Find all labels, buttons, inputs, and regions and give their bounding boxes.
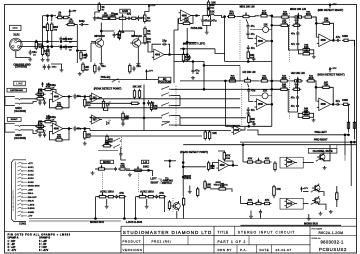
ground gnd-aux1 — [105, 205, 109, 209]
wire mic in branch — [91, 42, 95, 43]
wire mid wiper down — [246, 19, 248, 23]
junction j-hir3 — [271, 80, 273, 82]
wire f107 — [162, 107, 180, 109]
junction j-aux1a — [95, 218, 97, 220]
connector CON1 body — [12, 160, 27, 222]
svg-text:22u: 22u — [136, 65, 141, 68]
wire q105 link — [319, 192, 324, 196]
svg-text:4 : -17V: 4 : -17V — [8, 249, 17, 252]
wire keep chain2 — [226, 189, 233, 192]
wire r171 top — [197, 188, 199, 190]
pot MONO-A — [97, 165, 107, 170]
wire mic shield — [16, 51, 30, 58]
svg-text:RIGHT: RIGHT — [11, 119, 18, 121]
capacitor C132 — [147, 100, 155, 107]
resistor R108 — [98, 2, 105, 13]
junction j-mic4 — [60, 41, 62, 43]
ground gnd-line2 — [78, 72, 82, 76]
wiper node arrow — [169, 161, 171, 167]
wire mid chain c — [269, 15, 272, 17]
capacitor C136 elec rail — [251, 121, 255, 127]
pinouts box top — [5, 230, 122, 232]
svg-text:10K: 10K — [212, 132, 217, 135]
capacitor C114 elec — [208, 18, 217, 24]
op-amp U2B — [317, 34, 333, 47]
junction j-u6bo — [332, 104, 334, 106]
resistor R160 — [342, 103, 350, 105]
resistor R176 — [168, 200, 170, 211]
connector JK2 ring — [15, 130, 21, 131]
CON1 pin 9 INS-L — [18, 192, 35, 195]
right block divider — [310, 235, 357, 237]
capacitor C121 — [335, 35, 341, 42]
capacitor C115 47n — [246, 23, 249, 29]
resistor R175 — [157, 196, 166, 198]
svg-text:MONO BUS: MONO BUS — [90, 221, 104, 224]
capacitor C120 47n — [296, 41, 299, 47]
CON1 pin 8 +48V — [18, 188, 34, 191]
wire u3 out2 — [77, 96, 90, 98]
title block grid — [121, 226, 357, 253]
pot trim MID — [263, 27, 269, 33]
pot MONO VR3 — [133, 166, 144, 171]
wire q2 collector — [133, 31, 135, 37]
wire r181 down — [273, 196, 275, 199]
resistor R146 — [102, 99, 104, 110]
ground gnd-hir — [312, 118, 316, 122]
vertical wire x348 high out — [348, 104, 350, 132]
wire hir chain mid — [290, 80, 293, 82]
resistor R191 drop — [347, 121, 349, 129]
ground gnd-q1 — [99, 62, 103, 66]
wire c113 top — [203, 16, 211, 19]
title block middle sub-grid — [235, 226, 272, 253]
vertical wire x345 — [344, 135, 346, 155]
supply +17V peak — [146, 69, 154, 74]
connector JK2 tip — [15, 126, 21, 127]
svg-text:26-02-97: 26-02-97 — [276, 248, 292, 252]
supply +17V midr — [329, 3, 337, 8]
wire u1a fb right — [168, 44, 170, 54]
wire hi trim left — [250, 95, 262, 97]
wire bus y117 — [90, 117, 162, 119]
resistor R178 — [246, 161, 255, 163]
wire hi chain b — [253, 80, 260, 82]
svg-text:POSITION: POSITION — [159, 80, 171, 83]
connector XLR1 inner — [11, 39, 21, 49]
wire c144 down — [260, 215, 262, 219]
capacitor C119 47n — [296, 31, 299, 37]
resistor R166 — [102, 140, 113, 147]
svg-text:GAIN: GAIN — [122, 10, 128, 13]
svg-text:(PEAK DETECT POINT): (PEAK DETECT POINT) — [180, 151, 208, 154]
wire aux2 feed — [136, 196, 140, 198]
wire c107 r107 top — [77, 50, 86, 52]
switch SW4 — [316, 158, 325, 162]
svg-text:LINE: LINE — [16, 82, 23, 86]
svg-text:LEFT/MONO: LEFT/MONO — [10, 90, 23, 92]
transistor Q102 — [130, 34, 142, 49]
wire sw out3 — [171, 115, 180, 117]
pot PRE VR7 — [254, 158, 263, 163]
wire u8 fb — [224, 159, 233, 165]
capacitor C144 — [259, 209, 262, 215]
op-amp U9 fb box — [280, 157, 303, 168]
resistor R116 — [181, 18, 192, 25]
wire hir cap top — [297, 81, 299, 94]
wire x174 to eq — [174, 19, 178, 31]
ground gnd-mic1 — [28, 58, 32, 62]
XLR1 pin 3 — [17, 45, 19, 47]
wire hi chain a — [238, 80, 243, 82]
wire bus y103 — [90, 102, 132, 104]
svg-text:INS-L: INS-L — [28, 193, 34, 195]
wire aux1 feed — [96, 196, 100, 198]
wire hir out corner — [349, 103, 350, 105]
resistor R107 — [80, 50, 88, 61]
svg-text:R6C2A-1.2GM: R6C2A-1.2GM — [319, 231, 344, 235]
svg-text:P.A.: P.A. — [240, 248, 247, 252]
wire u3 out — [63, 96, 72, 98]
junction j-peak1 — [143, 103, 145, 105]
vertical wire x354 mid out — [354, 40, 356, 139]
svg-text:9603032-1: 9603032-1 — [321, 240, 344, 245]
label GAIN box — [120, 9, 130, 13]
ground gnd-q2 — [136, 62, 140, 66]
wire wiper top — [164, 160, 176, 162]
diode D101 — [56, 11, 65, 19]
wire bus y99 — [90, 98, 162, 100]
wire trim right — [269, 29, 272, 31]
svg-text:MIC: MIC — [13, 26, 19, 30]
label MONO — [100, 160, 113, 164]
wire u1a out — [164, 54, 174, 56]
op-amp U1A — [152, 49, 166, 60]
resistor R118 10K — [207, 7, 215, 18]
wire aux1 drop2 — [123, 197, 125, 219]
op-amp U8 — [216, 160, 230, 171]
pot AUXM VR8 — [254, 199, 263, 204]
capacitor C117 elec rail — [251, 56, 255, 62]
op-amp U6A — [255, 99, 269, 110]
svg-text:47K: 47K — [159, 192, 164, 195]
svg-text:OPAMP B: OPAMP B — [39, 237, 50, 240]
junction j-midr1 — [271, 25, 273, 27]
wire aux1 drop1 — [95, 197, 97, 219]
wire u7 out — [243, 127, 246, 130]
wire jk1 tip — [21, 98, 37, 100]
svg-text:1K: 1K — [121, 31, 124, 34]
wire preamp rail left — [95, 11, 99, 13]
wire q1 base — [91, 42, 94, 44]
wire u1a out ext — [174, 54, 187, 56]
wire mid feed — [214, 16, 225, 18]
svg-text:GND1: GND1 — [15, 135, 22, 137]
switch SW3A — [113, 138, 121, 142]
wire hi-left input v — [224, 81, 226, 126]
capacitor C141 — [211, 163, 214, 169]
switch bank SW2D — [161, 122, 170, 126]
resistor R141 fbl — [54, 135, 64, 142]
resistor R171 — [197, 187, 199, 198]
vertical wire x183 — [182, 152, 184, 196]
label L-R — [141, 160, 148, 164]
wire u4 fb right — [52, 122, 56, 126]
wire u3 fb loop — [63, 97, 69, 108]
capacitor C135 47n — [247, 88, 250, 94]
junction j-u9in — [242, 144, 244, 146]
dotted x173 low — [172, 198, 174, 212]
wire mic top right — [63, 41, 77, 43]
junction j-u2b — [316, 23, 318, 25]
svg-text:(MID DETECT RIGHT): (MID DETECT RIGHT) — [318, 9, 344, 12]
svg-text:22u: 22u — [101, 65, 106, 68]
wire x187 stub — [187, 41, 196, 43]
capacitor C130 — [97, 66, 100, 72]
wire x183 pan — [183, 177, 187, 179]
wiper node arrowhead — [169, 166, 171, 168]
junction j-hi-rail — [248, 126, 250, 128]
resistor R102 1K2 — [41, 46, 49, 57]
junction j-mono — [148, 170, 150, 172]
svg-text:CON1: CON1 — [19, 223, 27, 226]
switch SW5A — [311, 189, 320, 193]
wire u2b fb up — [316, 22, 322, 24]
wire bus y122 gap — [162, 121, 170, 123]
wire u10 vert — [240, 196, 242, 204]
svg-text:10K: 10K — [211, 2, 216, 5]
wire sw4 out — [324, 155, 330, 161]
resistor R152 6K8 — [228, 75, 237, 83]
wire gain wiper down — [122, 18, 124, 31]
wire u4 fb loop — [63, 129, 69, 140]
svg-text:CHASSIS GND: CHASSIS GND — [13, 63, 31, 66]
svg-text:OPAMP A: OPAMP A — [8, 237, 19, 240]
resistor R179 — [263, 161, 272, 163]
resistor R165 — [106, 134, 114, 145]
resistor R125 6K8 — [303, 12, 314, 19]
resistor R110 — [107, 13, 118, 20]
resistor R172 — [106, 196, 115, 198]
svg-text:L-BUS R-BUS: L-BUS R-BUS — [126, 221, 143, 224]
resistor R101 1K2 — [35, 40, 43, 51]
resistor R135 fbl — [54, 102, 64, 109]
op-amp U4 — [51, 123, 65, 134]
wire u6a out — [267, 103, 272, 105]
wire sw3 to c140 — [120, 148, 122, 152]
svg-text:ISSUE No: ISSUE No — [312, 238, 322, 240]
svg-text:DATE: DATE — [260, 248, 270, 252]
wire midr caps link — [297, 36, 299, 42]
transistor Q104 mute — [317, 153, 325, 162]
op-amp U10 fb box — [280, 198, 303, 209]
wire sw vert b — [179, 116, 181, 126]
wire midr low left — [299, 50, 302, 54]
capacitor C134 — [191, 68, 199, 75]
pot AUX2 VR6 — [137, 193, 148, 198]
wire c115-c116 — [247, 29, 249, 32]
junction j-x183c — [182, 166, 184, 168]
svg-text:VERSIONS: VERSIONS — [123, 248, 143, 252]
switch bank SW2A — [161, 93, 170, 97]
resistor R170 — [217, 184, 228, 191]
supply +48V — [69, 9, 77, 14]
wire u3 fb left — [39, 90, 45, 95]
wire r177 down — [183, 205, 185, 219]
svg-text:22K: 22K — [263, 91, 268, 93]
transistor Q105 mute — [312, 184, 320, 193]
wire left arrow — [158, 178, 162, 180]
resistor R113 — [118, 30, 120, 41]
vertical wire x174 — [173, 55, 175, 84]
svg-text:STEREO INPUT CIRCUIT: STEREO INPUT CIRCUIT — [238, 231, 296, 235]
svg-text:R-BUS: R-BUS — [28, 208, 35, 210]
wire pre-right — [240, 141, 355, 143]
resistor R164 — [208, 130, 210, 141]
capacitor C118 — [188, 55, 191, 61]
capacitor C110 elec — [136, 16, 145, 21]
CON1 pin 7 MONO BUS — [18, 185, 41, 188]
svg-text:HI1 10K LIN: HI1 10K LIN — [243, 72, 256, 74]
resistor R119 6K8 — [227, 11, 236, 18]
wire q mid link2 — [120, 30, 135, 32]
label MIC — [10, 25, 22, 30]
connector JK1 body — [5, 97, 15, 106]
svg-text:6 : -I/P: 6 : -I/P — [39, 243, 47, 246]
wire lineL bend — [89, 97, 91, 99]
wire mute drop — [329, 145, 331, 155]
wire jk2 tip — [21, 125, 37, 127]
wire bus g117 — [180, 117, 246, 119]
wire midr cap bot — [289, 25, 298, 50]
svg-text:L-R: L-R — [143, 161, 147, 164]
capacitor C127 — [38, 132, 41, 138]
wire monoA chain — [95, 168, 99, 170]
svg-text:STUDIOMASTER DIAMOND LTD: STUDIOMASTER DIAMOND LTD — [123, 230, 212, 235]
junction j-aux1b — [124, 218, 126, 220]
wire q103 down — [176, 211, 178, 219]
op-amp U5B cmp — [90, 115, 103, 124]
LED D103 — [106, 101, 111, 106]
wire u6b fb up — [316, 86, 322, 88]
svg-text:PRE-RIGHT: PRE-RIGHT — [314, 139, 328, 142]
connector JK1 ring — [15, 103, 21, 104]
wire hi trim right — [268, 95, 272, 97]
svg-text:+17V: +17V — [28, 163, 34, 165]
svg-text:100R: 100R — [342, 35, 348, 38]
svg-text:LEFT: LEFT — [150, 178, 157, 181]
resistor R132 47K — [35, 89, 46, 96]
resistor R144 — [94, 63, 96, 74]
label PAN — [184, 175, 191, 179]
switch bank SW2C — [161, 113, 170, 117]
resistor R123 — [182, 52, 190, 63]
wire peak rail drop — [146, 74, 148, 79]
CON1 pin 12 L-BUS — [18, 203, 35, 206]
resistor R128 — [342, 39, 350, 41]
capacitor C125 — [43, 100, 46, 106]
wire bus g107 — [180, 107, 240, 109]
op-amp U9 — [285, 158, 298, 167]
junction j-wiper — [169, 160, 171, 162]
wire sw vert a — [179, 96, 181, 106]
svg-text:SWITCH: SWITCH — [162, 182, 172, 185]
wire u5b in1 — [89, 116, 92, 119]
capacitor C142 — [115, 195, 118, 199]
connector XLR1 outer — [10, 38, 23, 51]
resistor R127 75K — [321, 17, 332, 25]
wire hi bottom rail — [225, 125, 271, 127]
resistor R130 — [301, 48, 312, 55]
wire peak rail — [100, 79, 158, 81]
resistor R158b 1K — [292, 83, 302, 91]
svg-text:MONO: MONO — [103, 161, 111, 164]
wire u1a fb up — [152, 44, 161, 52]
wire right drop1 — [344, 155, 346, 161]
resistor R145 — [129, 63, 131, 74]
resistor R148 — [138, 89, 140, 100]
resistor R174 — [146, 196, 155, 198]
wire u8 top — [218, 151, 224, 153]
junction j-ph1 — [47, 41, 49, 43]
wire right arrow — [160, 182, 163, 184]
svg-text:SGND: SGND — [28, 212, 35, 214]
svg-text:INS-OUT: INS-OUT — [28, 197, 37, 199]
wire mic r up — [74, 25, 77, 42]
capacitor C140 — [119, 152, 122, 158]
junction j-u3o — [68, 96, 70, 98]
wire mid rail joins — [247, 61, 249, 63]
ground gnd-line3 — [83, 142, 87, 146]
wire mid-left input v — [224, 17, 226, 62]
dotted gang hi1 — [241, 84, 243, 125]
wire mono chain — [126, 169, 153, 171]
transistor Q103 — [171, 201, 180, 211]
title block left sub-grid — [144, 236, 189, 253]
resistor R122 — [247, 50, 255, 61]
wire q2 to opamp — [141, 43, 152, 52]
resistor R112 1K — [144, 13, 152, 23]
resistor R182 — [246, 202, 255, 204]
wire hir low right — [311, 113, 313, 117]
wire aux2 drop1 — [135, 197, 137, 219]
wire d2 to 48v — [69, 14, 70, 15]
wire phantom r4 down — [47, 33, 49, 42]
ground gnd-aux2 — [145, 205, 149, 209]
junction j-preright — [350, 141, 352, 143]
CON1 pin 1 +17V — [18, 162, 34, 165]
junction j-lineR — [84, 128, 86, 130]
wire u8 out — [229, 164, 238, 166]
wire pre-left src — [247, 130, 258, 135]
resistor R150 — [150, 101, 158, 112]
resistor R181 dark — [273, 185, 276, 198]
wire mid chain b — [251, 15, 259, 18]
resistor R117 10K — [207, 0, 215, 11]
wire hir top in — [272, 80, 281, 82]
op-amp U10 — [285, 199, 298, 208]
capacitor C107 — [85, 53, 88, 59]
vertical wire x351 — [350, 142, 352, 186]
junction j-mic3 — [47, 46, 49, 48]
capacitor C116 47n — [246, 31, 249, 37]
wire hir caps link — [297, 100, 299, 104]
wire sw out4 — [171, 124, 180, 126]
ground gnd-sw4 — [323, 166, 327, 170]
wire sw out2 — [171, 105, 180, 107]
junction j-preleft — [344, 134, 346, 136]
wire u10 out — [303, 203, 309, 205]
